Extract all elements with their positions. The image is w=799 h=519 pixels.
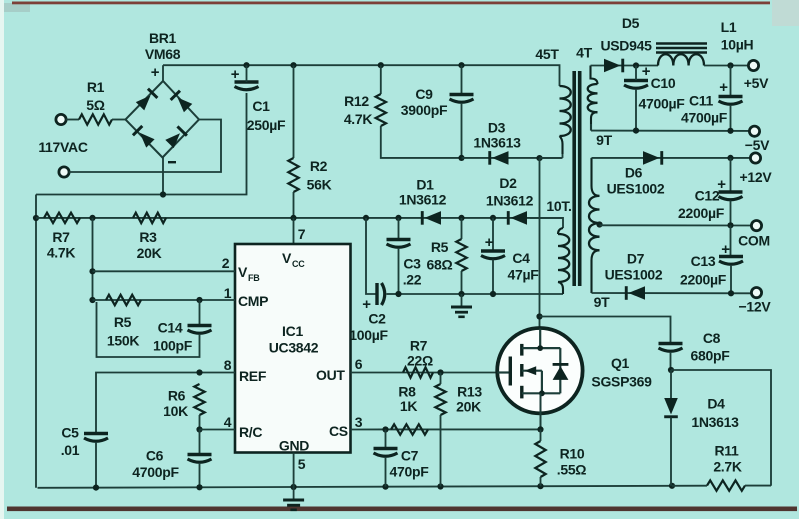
wire -5V rail — [591, 130, 750, 132]
svg-text:C7: C7 — [401, 448, 419, 464]
node CMP rail left — [89, 297, 95, 303]
svg-text:4700µF: 4700µF — [639, 96, 686, 112]
svg-text:1: 1 — [224, 285, 232, 301]
svg-text:+: + — [151, 64, 160, 81]
inductor L1 — [658, 54, 704, 65]
capacitor C9 — [450, 93, 474, 96]
capacitor C3 — [387, 238, 411, 241]
resistor R8 — [391, 424, 428, 434]
svg-text:5: 5 — [298, 456, 306, 472]
wire pin7 stub — [293, 218, 295, 245]
ground bootstrap symbol — [451, 294, 472, 317]
node bridge minus — [160, 191, 166, 197]
capacitor C5 — [84, 432, 108, 435]
wire ground rail — [38, 486, 673, 488]
node pin4 rail — [196, 426, 202, 432]
svg-text:D3: D3 — [488, 120, 506, 136]
svg-text:R7: R7 — [52, 229, 70, 245]
wire R10 top stub — [540, 429, 542, 441]
svg-text:C12: C12 — [695, 188, 720, 204]
svg-text:OUT: OUT — [316, 367, 345, 383]
svg-text:Q1: Q1 — [611, 355, 630, 371]
svg-text:R13: R13 — [457, 384, 482, 400]
wire D4 cathode stub — [670, 418, 672, 486]
wire C4 bottom stub — [492, 260, 494, 295]
wire R2 top stub — [293, 65, 295, 158]
terminal +12V — [750, 153, 760, 163]
svg-text:+: + — [642, 63, 651, 80]
wire D7 row — [592, 292, 753, 294]
svg-text:5Ω: 5Ω — [86, 97, 104, 113]
svg-text:BR1: BR1 — [149, 30, 177, 46]
node VCC pin7 — [290, 215, 296, 221]
scan noise top-right — [772, 0, 799, 26]
node C1 top — [243, 62, 249, 68]
resistor R5 68 ohm — [456, 239, 466, 271]
svg-text:V: V — [238, 264, 248, 280]
node C8 bottom — [668, 367, 674, 373]
resistor R2 — [288, 158, 298, 192]
node C4 bottom — [490, 291, 496, 297]
wire C10 top stub — [635, 66, 637, 81]
svg-text:150K: 150K — [107, 333, 139, 349]
svg-text:D1: D1 — [416, 177, 434, 193]
svg-text:+5V: +5V — [744, 75, 769, 91]
wire C4 top stub — [492, 218, 494, 250]
top red border line — [12, 2, 770, 5]
svg-text:4700µF: 4700µF — [681, 110, 728, 126]
svg-text:+: + — [721, 241, 730, 258]
node C13 bottom — [728, 290, 734, 296]
svg-text:7: 7 — [298, 226, 306, 242]
svg-text:4.7K: 4.7K — [47, 245, 76, 261]
svg-text:20K: 20K — [137, 245, 162, 261]
svg-text:R2: R2 — [310, 158, 328, 174]
node ground R13 — [437, 483, 443, 489]
wire 117VAC top to R1 — [66, 119, 79, 121]
node VCC rail left — [33, 215, 39, 221]
diode D1 — [421, 211, 441, 225]
terminal -12V — [751, 288, 761, 298]
svg-text:D7: D7 — [627, 251, 645, 267]
node R6 top — [196, 369, 202, 375]
svg-text:R3: R3 — [139, 229, 157, 245]
svg-text:R5: R5 — [431, 239, 449, 255]
wire VCC rail — [36, 217, 563, 219]
resistor R13 — [435, 384, 445, 415]
Q1 gate bar — [509, 357, 512, 386]
wire C14 return box — [97, 302, 200, 357]
svg-text:3900pF: 3900pF — [401, 102, 448, 118]
node ground D4 — [669, 483, 675, 489]
bridge diode top-right — [170, 90, 193, 113]
bridge diode bottom-left — [132, 125, 155, 148]
wire R11 branch right — [671, 370, 771, 486]
wire VFB column — [92, 218, 94, 300]
wire left edge vertical — [35, 195, 37, 488]
wire R6 bottom — [199, 415, 201, 430]
resistor R6 — [194, 384, 204, 415]
wire D4 node to R11 — [672, 485, 707, 487]
svg-text:UC3842: UC3842 — [269, 340, 319, 356]
svg-text:1N3613: 1N3613 — [473, 135, 521, 151]
terminal COM — [751, 221, 761, 231]
svg-text:9T: 9T — [596, 132, 612, 148]
Q1 channel dash mid — [520, 364, 523, 377]
resistor R1 — [79, 114, 112, 124]
wire C11 bottom stub — [730, 105, 732, 131]
diode D2 — [507, 211, 527, 225]
capacitor C8 — [659, 342, 683, 345]
wire R12 bottom corner — [381, 126, 462, 158]
node D3 row drain column — [536, 155, 542, 161]
diode D7 — [625, 286, 645, 300]
svg-text:C10: C10 — [651, 75, 676, 91]
capacitor C1 — [235, 80, 259, 83]
bridge diode bottom-right — [165, 125, 188, 148]
node C2 branch top — [363, 215, 369, 221]
svg-text:CS: CS — [329, 423, 348, 439]
svg-text:.01: .01 — [61, 442, 80, 458]
svg-text:R7: R7 — [410, 338, 428, 354]
node winding center tap COM — [596, 221, 602, 227]
node ground pin5 — [291, 484, 297, 490]
svg-text:C9: C9 — [415, 86, 433, 102]
wire pin5 stub — [293, 453, 295, 488]
svg-text:68Ω: 68Ω — [427, 257, 453, 273]
transistor Q1 body circle — [497, 328, 582, 413]
node ground C5 — [93, 485, 99, 491]
label bridge minus — [168, 161, 176, 163]
capacitor C6 — [188, 453, 212, 456]
Q1 body diode — [553, 366, 569, 380]
svg-text:100µF: 100µF — [349, 327, 388, 343]
wire REF rail and C5 branch — [96, 373, 235, 433]
wire 4T bottom corner — [590, 124, 592, 131]
svg-text:USD945: USD945 — [600, 38, 652, 54]
transformer core bar left — [572, 71, 576, 286]
wire C7 top stub — [385, 430, 387, 448]
node C4 top — [490, 215, 496, 221]
svg-text:R5: R5 — [114, 314, 132, 330]
svg-text:VM68: VM68 — [145, 46, 181, 62]
svg-text:C8: C8 — [703, 330, 721, 346]
node C9 top — [458, 62, 464, 68]
capacitor C2 — [375, 283, 378, 305]
svg-text:REF: REF — [239, 368, 267, 384]
svg-text:+: + — [231, 66, 240, 83]
Q1 channel dash bottom — [520, 386, 523, 399]
capacitor C4 — [481, 249, 505, 252]
node C11 top — [727, 62, 733, 68]
svg-text:UES1002: UES1002 — [607, 181, 665, 197]
node C7 top — [382, 426, 388, 432]
svg-text:IC1: IC1 — [282, 323, 303, 339]
svg-text:56K: 56K — [307, 177, 332, 193]
wire R5b top stub — [461, 218, 463, 239]
winding 9T-9T secondary center-tapped — [592, 158, 600, 196]
svg-text:9T: 9T — [594, 294, 610, 310]
svg-text:2200µF: 2200µF — [678, 205, 725, 221]
svg-text:+: + — [719, 79, 728, 96]
wire C10 bottom stub — [635, 89, 637, 131]
svg-text:D5: D5 — [622, 15, 640, 31]
svg-text:R12: R12 — [344, 93, 369, 109]
svg-text:6: 6 — [355, 356, 363, 372]
capacitor C7 — [374, 447, 398, 450]
svg-text:47µF: 47µF — [508, 267, 540, 283]
wire R12 top stub — [380, 65, 382, 94]
wire pin2 rail — [93, 270, 236, 272]
inductor L1 core lines — [656, 42, 707, 45]
diode D4 — [664, 398, 678, 418]
wire R5b bottom stub — [461, 271, 463, 294]
node drain C8 branch — [536, 313, 542, 319]
wire D6 row — [592, 157, 752, 159]
op-amp U1 IC1 box — [235, 244, 351, 453]
bottom red border line — [7, 507, 797, 512]
terminal 117VAC bottom — [59, 167, 69, 177]
svg-text:V: V — [282, 250, 292, 266]
svg-text:1N3612: 1N3612 — [486, 193, 534, 209]
wire C13 top stub — [730, 225, 732, 255]
bridge BR1 diamond outline — [126, 81, 200, 158]
svg-text:−5V: −5V — [745, 137, 770, 153]
svg-text:C4: C4 — [512, 250, 530, 266]
wire C9 top stub — [461, 65, 463, 93]
wire C7 bottom stub — [385, 457, 387, 487]
Q1 source internal — [522, 392, 561, 394]
wire C2 right to ground rail node — [387, 293, 399, 295]
svg-text:GND: GND — [279, 438, 309, 454]
terminal 117VAC top — [56, 114, 66, 124]
svg-text:R11: R11 — [714, 443, 739, 459]
capacitor C14 — [188, 324, 212, 327]
resistor R7 left — [44, 213, 80, 223]
wire R13 top stub — [440, 373, 442, 385]
svg-text:CC: CC — [292, 259, 305, 269]
wire bootstrap ground rail — [399, 293, 564, 295]
svg-text:D6: D6 — [625, 165, 643, 181]
wire OUT rail — [351, 372, 498, 374]
winding 45T primary — [560, 86, 571, 136]
wire L1 to +5V — [704, 65, 749, 67]
svg-text:R1: R1 — [87, 79, 105, 95]
Q1 body diode branch — [559, 348, 561, 393]
node R5b bottom ground — [458, 291, 464, 297]
svg-text:1N3612: 1N3612 — [399, 192, 447, 208]
wire R13 bottom to ground — [440, 415, 442, 487]
node C11 bottom — [727, 128, 733, 134]
wire COM rail — [600, 224, 753, 226]
node C12 top — [727, 155, 733, 161]
terminal -5V — [749, 126, 759, 136]
node C10 top — [633, 62, 639, 68]
svg-text:COM: COM — [738, 233, 770, 249]
wire C14 top stub — [199, 300, 201, 324]
svg-text:.55Ω: .55Ω — [557, 462, 587, 478]
wire pin1 rail — [93, 299, 236, 301]
wire HV+ top rail — [163, 65, 560, 86]
svg-text:C5: C5 — [61, 425, 79, 441]
wire C6 bottom stub — [199, 463, 201, 487]
svg-text:CMP: CMP — [238, 293, 268, 309]
winding 10T primary aux — [530, 218, 563, 228]
bridge diode top-left — [135, 88, 158, 111]
svg-text:R6: R6 — [168, 388, 186, 404]
svg-text:250µF: 250µF — [247, 117, 286, 133]
node C10 bottom — [633, 128, 639, 134]
svg-text:+12V: +12V — [740, 169, 773, 185]
wire C3 bottom stub — [398, 248, 400, 294]
capacitor C11 — [719, 95, 743, 98]
Q1 channel dash top — [520, 344, 523, 356]
wire pin4 rail — [200, 429, 236, 431]
resistor R12 — [376, 94, 386, 126]
svg-text:C6: C6 — [146, 448, 164, 464]
terminal +5V — [748, 60, 758, 70]
node ground R10 — [537, 483, 543, 489]
node R12 top — [378, 62, 384, 68]
svg-text:8: 8 — [224, 357, 232, 373]
svg-text:117VAC: 117VAC — [38, 139, 87, 155]
svg-text:2.7K: 2.7K — [713, 459, 742, 475]
wire C13 bottom stub — [730, 265, 732, 293]
winding 4T secondary — [591, 66, 598, 85]
wire C1 top stub — [246, 65, 248, 82]
svg-text:4.7K: 4.7K — [344, 111, 373, 127]
wire C12 top stub — [730, 158, 732, 191]
svg-text:C3: C3 — [403, 256, 421, 272]
svg-text:1K: 1K — [400, 398, 417, 414]
ground pin5 symbol — [283, 487, 304, 510]
svg-text:FB: FB — [248, 273, 260, 283]
svg-text:4: 4 — [224, 414, 232, 430]
wire C11 top stub — [730, 66, 732, 96]
svg-text:1N3613: 1N3613 — [691, 414, 739, 430]
wire C2 branch — [366, 218, 376, 294]
scan noise top-left — [4, 3, 30, 12]
Q1 gate lead — [498, 371, 511, 373]
wire D3 row — [462, 157, 562, 159]
wire C8 branch — [540, 317, 671, 343]
wire C9 bottom stub — [461, 103, 463, 158]
node ground C6 — [196, 484, 202, 490]
svg-text:470pF: 470pF — [390, 464, 430, 480]
svg-text:L1: L1 — [721, 19, 737, 35]
left page edge highlight — [0, 0, 4, 519]
wire bridge minus rail — [36, 93, 247, 195]
svg-text:R10: R10 — [560, 446, 585, 462]
node C12 bottom COM — [727, 222, 733, 228]
wire bridge bottom to minus rail — [162, 158, 164, 195]
svg-text:2200µF: 2200µF — [680, 272, 727, 288]
svg-text:100pF: 100pF — [153, 338, 193, 354]
svg-text:3: 3 — [355, 414, 363, 430]
resistor R11 — [707, 480, 745, 490]
Q1 source lead — [540, 393, 542, 429]
node gate R13 top — [437, 369, 443, 375]
svg-text:2: 2 — [222, 255, 230, 271]
svg-text:C2: C2 — [368, 311, 386, 327]
svg-text:C13: C13 — [691, 253, 716, 269]
svg-text:R/C: R/C — [239, 424, 262, 440]
wire CS rail — [351, 428, 541, 430]
svg-text:C1: C1 — [252, 98, 270, 114]
Q1 substrate arrow — [522, 370, 542, 372]
svg-text:4T: 4T — [576, 45, 592, 61]
node R2 top — [290, 62, 296, 68]
svg-text:10K: 10K — [163, 403, 188, 419]
svg-text:D4: D4 — [707, 396, 725, 412]
node ground C7 — [382, 484, 388, 490]
svg-text:10µH: 10µH — [721, 37, 754, 53]
svg-text:20K: 20K — [456, 399, 481, 415]
node R5b top — [458, 215, 464, 221]
svg-text:22Ω: 22Ω — [407, 353, 433, 369]
wire bridge top to HV rail — [162, 65, 164, 81]
node C3 bottom — [395, 291, 401, 297]
wire D4 anode stub — [670, 370, 672, 398]
Q1 drain internal — [522, 347, 561, 349]
svg-text:D2: D2 — [499, 175, 517, 191]
svg-text:.22: .22 — [403, 272, 422, 288]
svg-text:UES1002: UES1002 — [605, 267, 663, 283]
node C3 top — [395, 215, 401, 221]
svg-text:10T.: 10T. — [546, 198, 571, 214]
resistor R5 150K — [106, 295, 141, 305]
wire C5 bottom stub — [95, 442, 97, 488]
svg-text:−12V: −12V — [739, 299, 772, 315]
node Q1 source CS — [537, 426, 543, 432]
wire R10 bottom stub — [540, 477, 542, 486]
wire C8 bottom stub — [670, 352, 672, 370]
svg-text:680pF: 680pF — [691, 348, 731, 364]
diode D5 — [604, 59, 624, 73]
transformer core bar right — [578, 71, 582, 286]
wire R1 to bridge left — [112, 119, 126, 121]
capacitor C13 — [719, 255, 743, 258]
diode D3 — [488, 151, 508, 165]
svg-text:SGSP369: SGSP369 — [591, 374, 652, 390]
svg-text:4700pF: 4700pF — [132, 464, 179, 480]
wire C12 bottom stub — [730, 201, 732, 226]
capacitor C10 — [624, 79, 648, 82]
diode D6 — [643, 151, 663, 165]
svg-text:C14: C14 — [158, 320, 183, 336]
node D3 row C9 — [458, 155, 464, 161]
svg-text:C11: C11 — [689, 93, 714, 109]
wire 117VAC bottom to bridge right — [69, 120, 221, 173]
node R7-R5 column top — [89, 215, 95, 221]
wire R11 to right corner — [745, 485, 771, 487]
svg-text:+: + — [485, 234, 494, 251]
capacitor C12 — [719, 190, 743, 193]
wire D5 row — [591, 65, 659, 67]
resistor R10 — [535, 441, 545, 477]
resistor R3 — [133, 213, 166, 223]
wire C3 top stub — [398, 218, 400, 238]
node pin2 rail — [89, 268, 95, 274]
wire drain column — [539, 158, 541, 328]
wire R2 bottom to VCC rail — [293, 192, 295, 218]
svg-text:45T: 45T — [535, 46, 559, 62]
wire C6 top stub — [199, 430, 201, 454]
resistor R7 22 ohm — [403, 367, 433, 377]
node C14 top — [196, 297, 202, 303]
